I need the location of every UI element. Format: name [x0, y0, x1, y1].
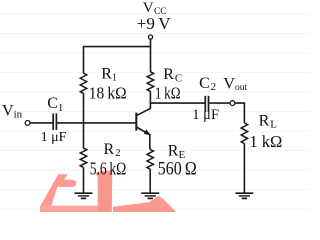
- svg-text:5.6 kΩ: 5.6 kΩ: [90, 160, 127, 179]
- svg-text:560 Ω: 560 Ω: [158, 158, 197, 178]
- transistor Q1 base bar: [135, 113, 137, 131]
- wire RC bottom to collector node: [149, 91, 151, 103]
- ground (RE): [141, 193, 159, 198]
- resistor R2: [80, 148, 86, 167]
- svg-text:1 kΩ: 1 kΩ: [249, 132, 282, 151]
- resistor RE: [147, 149, 153, 169]
- svg-text:1 μF: 1 μF: [192, 107, 219, 123]
- transistor Q1 collector lead: [137, 103, 151, 116]
- svg-text:1 kΩ: 1 kΩ: [155, 85, 181, 103]
- Vin terminal circle: [25, 121, 30, 126]
- ground (RL): [235, 193, 253, 198]
- watermark: left diagonal stroke with arm: [40, 174, 76, 206]
- wire R1 bottom to base node to R2 top: [83, 93, 85, 148]
- capacitor C1: [53, 113, 56, 129]
- wire RL bottom to ground: [243, 144, 245, 193]
- resistor RL: [241, 123, 247, 144]
- svg-text:+9 V: +9 V: [137, 14, 171, 33]
- transistor Q1 emitter arrowhead: [144, 130, 150, 135]
- VCC terminal circle: [148, 35, 152, 39]
- wire collector node to C2: [150, 102, 205, 104]
- watermark: right swoosh: [113, 196, 176, 212]
- ground (R2): [75, 193, 93, 198]
- wire C2 to Vout terminal: [209, 102, 230, 104]
- wire RE bottom to ground: [149, 169, 151, 193]
- watermark: bottom bar: [40, 206, 99, 212]
- faint scan ruling: [0, 14, 310, 209]
- svg-text:1 μF: 1 μF: [41, 130, 67, 145]
- watermark: vertical bar: [96, 171, 112, 212]
- resistor RC: [147, 72, 153, 92]
- wire Vout to RL top: [235, 103, 244, 123]
- capacitor C2: [205, 96, 208, 112]
- wire top rail: [84, 47, 151, 74]
- Vout terminal circle: [230, 101, 235, 106]
- resistor R1: [80, 73, 86, 93]
- wire VCC stub: [150, 39, 152, 46]
- wire R2 bottom to ground: [83, 167, 85, 192]
- svg-text:18 kΩ: 18 kΩ: [89, 84, 127, 103]
- transistor Q1 emitter lead: [137, 127, 150, 150]
- wire C1 to base: [57, 122, 135, 124]
- wire Vin to C1: [30, 122, 52, 124]
